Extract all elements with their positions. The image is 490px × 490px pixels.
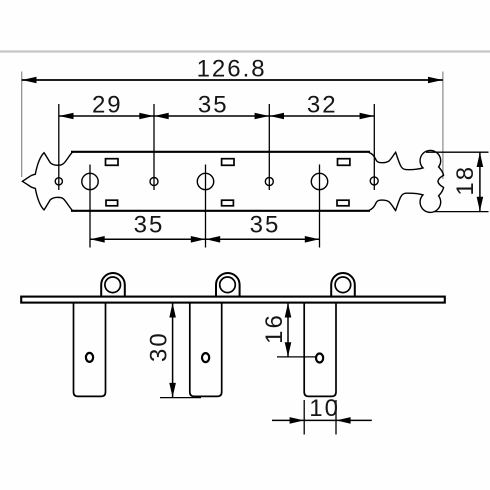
svg-text:18: 18 [452,165,479,196]
dimension line 126.8 [22,79,443,81]
post hole 2 [202,353,209,362]
slot top 1 [106,159,119,166]
small hole 2 [150,178,158,186]
dim 30 bottom extension [160,397,201,399]
dim 18 extension line top [426,151,489,153]
arrow b35 mid-left [191,236,205,243]
svg-text:29: 29 [92,91,123,118]
small hole right end [370,177,378,185]
arrow b35 mid-right [206,236,220,243]
svg-text:35: 35 [134,211,165,238]
dim 18 extension line bottom [434,211,489,213]
dim 30 line [172,303,174,398]
bottom dim extension line at 205.5 [205,165,207,248]
bottom dim extension line at 319.5 [319,165,321,248]
slot bottom 2 [222,200,234,206]
bottom dim extension line at 90 [89,165,91,248]
arrow 10 right [336,417,350,424]
arrow 35 left [154,113,168,120]
front view ring 1 [101,273,125,297]
plate bottom edge [71,210,370,212]
dimension line 10 [272,419,372,421]
dim 16 bottom extension [277,356,316,358]
top separator gray line [0,50,490,52]
front view ring 2 [216,273,240,297]
svg-text:16: 16 [261,313,288,344]
plate top edge [71,151,370,153]
svg-text:35: 35 [198,91,229,118]
arrow 32 right [360,113,374,120]
dim 10 extension line right [335,400,337,435]
post hole 1 [86,353,93,362]
arrow 16 bottom [285,342,292,357]
arrow 126.8 left [22,77,37,84]
dimension 126.8 extension line left [21,72,23,178]
arrow 29 left [59,113,73,120]
slot bottom 1 [106,200,118,206]
arrow 126.8 right [428,77,443,84]
plate left decorative end [22,152,72,211]
arrow 10 left [290,417,304,424]
dimension line 18 [479,152,481,211]
arrow 32 left [270,113,284,120]
svg-text:35: 35 [250,211,281,238]
dim 10 extension line left [303,400,305,435]
chain dim extension line at 153.9 [153,104,155,190]
front view post 1 [74,303,106,397]
slot bottom 3 [337,200,349,206]
chain dim extension line at 269.3 [268,104,270,190]
svg-text:126.8: 126.8 [197,56,267,83]
plate right decorative end [369,150,444,212]
arrow 35 right [255,113,269,120]
arrow 16 top [285,303,292,318]
chain dim extension line at 58.8 [58,104,60,190]
arrow 30 bottom [169,383,176,398]
front view bar [21,297,445,303]
small hole left end [55,178,62,185]
arrow 18 bottom [477,197,484,212]
big hole 3 [311,173,327,189]
front view ring 3 [331,273,355,297]
small hole 3 [265,178,273,186]
arrow b35 left [90,236,104,243]
chain dim extension line at 374.3 [373,104,375,190]
slot top 3 [338,159,350,166]
front view post 2 [190,303,222,397]
front view post 3 [304,303,336,397]
slot top 2 [222,159,234,166]
dimension 126.8 extension line right [442,72,444,180]
chain dimension line 29/35/32 [59,115,375,117]
big hole 2 [197,173,213,189]
svg-text:10: 10 [309,395,340,422]
svg-text:30: 30 [145,331,172,362]
arrow b35 right [305,236,319,243]
big hole 1 [82,173,98,189]
bottom dimension line 35/35 [90,238,320,240]
post hole 3 [316,354,323,363]
arrow 30 top [169,303,176,318]
arrow 18 top [477,153,484,168]
arrow 29 right [139,113,153,120]
dim 16 line [287,303,289,357]
svg-text:32: 32 [307,91,338,118]
